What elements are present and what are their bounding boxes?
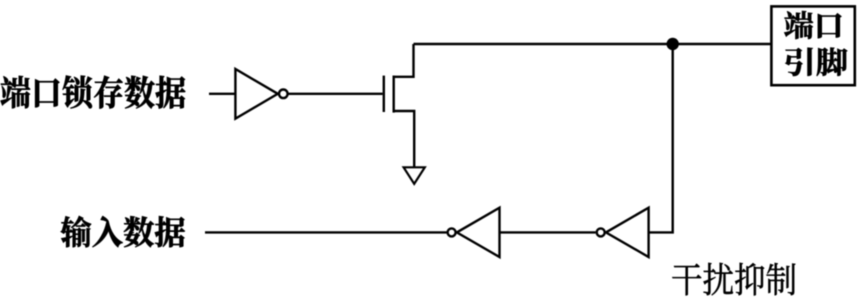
inverter U3 triangle bbox=[606, 208, 649, 257]
port pin box 端口引脚 bbox=[771, 6, 854, 85]
junction node A bbox=[667, 38, 679, 50]
label 干扰抑制 (interference suppression) bbox=[672, 263, 795, 296]
wire Q1 drain stub up to node A bbox=[393, 44, 414, 77]
label 端口 (box line 1) bbox=[784, 11, 841, 39]
wire U3 output to U2 input bbox=[500, 231, 596, 233]
inverter U2 triangle bbox=[457, 208, 500, 257]
wire Q1 source stub down to ground bbox=[393, 111, 415, 167]
inverter U1 triangle bbox=[235, 69, 277, 119]
transistor Q1 channel bar bbox=[393, 76, 395, 113]
label 引脚 (box line 2) bbox=[785, 48, 847, 76]
wire U2 output to 输入数据 bbox=[205, 231, 447, 233]
label net 端口锁存数据 (port latch data) bbox=[1, 76, 186, 109]
inverter U3 output bubble bbox=[597, 228, 605, 236]
wire U1 output to Q1 gate bbox=[289, 93, 383, 95]
wire 端口锁存数据 to U1 input bbox=[209, 93, 235, 95]
transistor Q1 gate bar bbox=[383, 76, 385, 112]
label net 输入数据 (input data) bbox=[61, 216, 185, 247]
wire node A down to U3 input bbox=[649, 44, 673, 232]
inverter U2 output bubble bbox=[448, 228, 456, 236]
wire node A: drain to port-pin box bbox=[414, 43, 772, 45]
ground bbox=[404, 167, 425, 184]
inverter U1 output bubble bbox=[279, 90, 288, 99]
